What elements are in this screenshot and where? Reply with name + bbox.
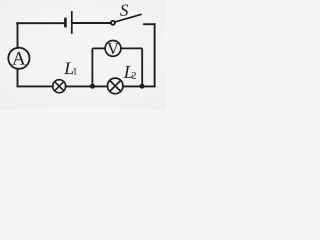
wire bottom between L1 and node <box>66 85 108 87</box>
wire left vertical lower <box>17 69 19 87</box>
switch S pivot circle <box>111 21 115 25</box>
ammeter A circle <box>8 48 29 69</box>
lamp L1 circle with cross <box>53 80 66 93</box>
wire bottom between L2 and right corner <box>123 85 155 87</box>
label S <box>120 4 128 15</box>
label L1 <box>64 62 73 74</box>
node junction dot right <box>140 84 145 89</box>
wire top-left horizontal <box>17 22 64 24</box>
wire voltmeter left drop <box>91 48 93 86</box>
wire voltmeter left lead <box>92 47 105 49</box>
label L2 <box>124 66 133 78</box>
wire voltmeter right lead <box>121 47 142 49</box>
wire right vertical <box>154 24 156 86</box>
battery B long thin plate (positive) <box>71 11 73 34</box>
wire bottom left horizontal <box>18 85 53 87</box>
battery B short thick plate (negative) <box>64 18 67 28</box>
switch S blade (open) <box>115 14 141 22</box>
lamp L2 circle with cross <box>107 78 123 94</box>
voltmeter V circle <box>105 41 121 57</box>
wire top-right stub to switch contact <box>144 23 155 25</box>
ammeter A letter <box>12 52 25 65</box>
wire voltmeter right drop <box>141 48 143 86</box>
wire battery to switch <box>73 22 111 24</box>
wire left vertical upper <box>17 23 19 48</box>
voltmeter V letter <box>107 43 119 54</box>
node junction dot left <box>90 84 95 89</box>
